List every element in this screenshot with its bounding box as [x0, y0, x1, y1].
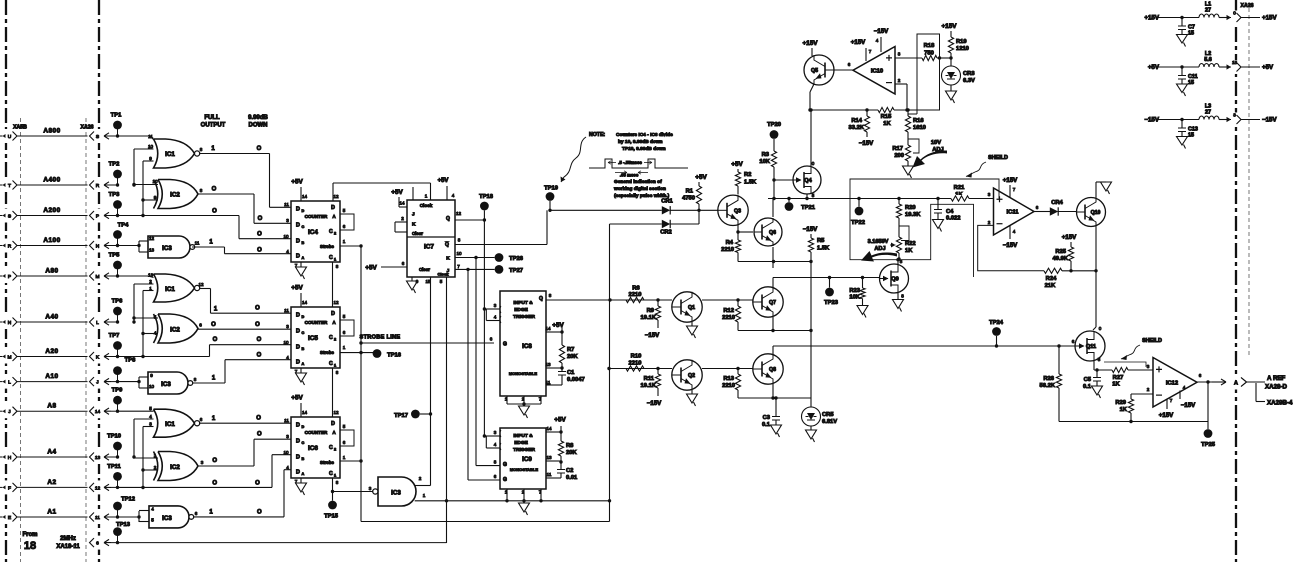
flip-flop IC7 [407, 200, 455, 277]
Q2 ground [691, 390, 693, 394]
svg-text:27: 27 [1205, 8, 1211, 14]
svg-text:+5V: +5V [291, 395, 303, 402]
svg-text:6: 6 [494, 474, 497, 479]
inductor L1 [1199, 14, 1219, 18]
svg-text:10: 10 [152, 179, 158, 184]
connector XA26 dashed line (left) [98, 0, 100, 562]
connector XA26 dashed line (right) [1235, 0, 1237, 562]
capacitor C4 0.022 [936, 197, 939, 200]
svg-text:ADJ: ADJ [874, 246, 885, 252]
svg-text:−15V: −15V [803, 226, 818, 233]
wire IC8 output vertical (CR2 feed) [609, 224, 611, 522]
svg-text:13: 13 [149, 248, 155, 253]
wire IC8 Q to CR2 [610, 223, 662, 225]
svg-text:2: 2 [419, 476, 422, 481]
svg-text:C5: C5 [1084, 377, 1092, 383]
svg-text:D: D [296, 360, 300, 366]
svg-text:A80: A80 [45, 268, 58, 275]
IC5 +5V pin 14 [300, 293, 302, 307]
svg-text:Q6: Q6 [769, 230, 776, 236]
svg-text:3: 3 [149, 422, 152, 427]
svg-text:6: 6 [1036, 205, 1039, 210]
resistor R26 56.2K [1058, 346, 1060, 374]
test point TP4 [117, 235, 119, 246]
svg-text:Strobe: Strobe [320, 460, 334, 465]
wire IC2 out to IC4 DC [198, 193, 254, 195]
capacitor C5 0.1 [1096, 370, 1098, 377]
svg-text:O: O [257, 146, 262, 152]
svg-text:O: O [256, 416, 261, 422]
resistor R14 33.2K [866, 110, 868, 116]
svg-text:−15V: −15V [1003, 242, 1018, 249]
svg-text:TP1: TP1 [111, 113, 122, 119]
svg-text:5: 5 [149, 406, 152, 411]
svg-text:D: D [331, 311, 335, 317]
svg-text:T: T [8, 183, 11, 189]
svg-text:2210: 2210 [722, 315, 735, 321]
svg-text:8: 8 [549, 293, 552, 298]
wire A20 to IC5 DB [118, 356, 210, 358]
svg-text:3: 3 [286, 218, 289, 223]
svg-text:12: 12 [95, 485, 101, 491]
svg-text:2210: 2210 [629, 292, 642, 298]
svg-text:IC3: IC3 [162, 515, 172, 522]
wire A400 to test point [104, 182, 111, 188]
transistor Q2 [672, 360, 702, 390]
svg-text:11: 11 [284, 418, 289, 423]
IC11 -15V pin 4 [1009, 225, 1011, 239]
svg-text:200: 200 [894, 153, 904, 159]
svg-text:TP11: TP11 [107, 464, 121, 470]
svg-text:19.1K: 19.1K [641, 383, 657, 389]
svg-text:TP27: TP27 [509, 268, 523, 274]
R18 routing box [908, 34, 940, 114]
potentiometer R22 1K (3.1659V ADJ) [896, 237, 901, 253]
svg-text:2210: 2210 [629, 361, 642, 367]
wire A80 to test point [104, 273, 111, 279]
capacitor C13 [1181, 120, 1183, 128]
wire IC7 K10 to TP26 [455, 257, 495, 259]
svg-text:O: O [257, 337, 262, 343]
svg-text:Q10: Q10 [1091, 210, 1101, 216]
wire gate pin1 from junction [415, 500, 447, 502]
svg-text:B: B [302, 457, 305, 461]
svg-text:2MHz: 2MHz [60, 536, 76, 542]
note waveform [589, 159, 688, 168]
svg-text:10: 10 [456, 251, 462, 256]
counter IC6 [291, 417, 340, 478]
test point TP2 [117, 174, 119, 185]
svg-text:1K: 1K [905, 248, 913, 254]
svg-text:R4: R4 [726, 240, 734, 246]
test point TP8 [117, 371, 119, 382]
svg-text:R13: R13 [723, 376, 734, 382]
svg-text:J: J [412, 212, 415, 218]
IC9 input bracket wires [484, 435, 500, 437]
svg-text:O: O [257, 353, 262, 359]
svg-text:6: 6 [848, 62, 851, 67]
svg-text:14: 14 [302, 300, 308, 305]
gate IC3 (NAND, group 3) [118, 516, 140, 518]
svg-text:14: 14 [399, 201, 405, 206]
wire Q11 source to IC12 [1093, 361, 1095, 370]
R27 shield stub [1104, 362, 1146, 367]
svg-text:4: 4 [286, 249, 289, 254]
svg-text:O: O [212, 481, 217, 487]
svg-text:0: 0 [1233, 11, 1236, 16]
svg-text:IC1: IC1 [165, 286, 175, 293]
wire strobe bus vertical [360, 246, 362, 522]
svg-text:11: 11 [546, 380, 551, 385]
svg-text:Clear: Clear [412, 231, 423, 236]
IC9 pin11 wire [546, 477, 561, 479]
svg-text:0.022: 0.022 [946, 216, 961, 222]
svg-text:R: R [96, 183, 100, 189]
svg-text:D: D [296, 439, 300, 445]
svg-text:TP13: TP13 [116, 522, 131, 528]
svg-text:C: C [302, 225, 305, 229]
bottom horizontal line y=521 [361, 521, 610, 523]
svg-text:1K: 1K [883, 121, 891, 127]
IC9 pin14 +5V and R8 20K [546, 431, 561, 433]
svg-text:1.5K: 1.5K [744, 180, 757, 186]
gate IC3 (NAND, group 1) [118, 245, 140, 247]
monostable IC9 [500, 428, 546, 489]
svg-text:20K: 20K [566, 450, 577, 456]
svg-text:M: M [96, 274, 100, 280]
svg-text:O: O [255, 481, 260, 487]
wire A100 to test point [104, 242, 111, 248]
svg-text:2: 2 [898, 78, 901, 83]
svg-text:9: 9 [149, 156, 152, 161]
svg-text:7: 7 [1013, 187, 1016, 192]
svg-text:5: 5 [151, 518, 154, 523]
IC6 +5V pin 14 [300, 403, 302, 417]
svg-text:O: O [255, 322, 260, 328]
svg-text:TP2: TP2 [109, 162, 120, 168]
svg-text:+5V: +5V [291, 285, 303, 292]
svg-text:6: 6 [343, 440, 346, 445]
wire IC7 Q12 output to trigger bus [455, 219, 484, 221]
svg-text:4750: 4750 [682, 196, 695, 202]
svg-text:TRIGGER: TRIGGER [513, 447, 535, 453]
capacitor C11 [1181, 67, 1183, 75]
svg-text:5: 5 [1098, 357, 1101, 362]
svg-text:Q: Q [539, 296, 543, 302]
svg-text:From: From [23, 532, 38, 538]
svg-text:−15V: −15V [1181, 402, 1196, 409]
svg-text:9: 9 [154, 195, 157, 200]
wire IC12 output [1197, 381, 1218, 383]
svg-text:12: 12 [149, 236, 155, 241]
svg-text:F: F [8, 485, 11, 491]
svg-text:D: D [302, 315, 305, 319]
svg-text:CR2: CR2 [660, 230, 672, 236]
test point TP6 [117, 311, 119, 322]
IC8 pin11 wire [546, 384, 562, 386]
svg-text:D: D [296, 223, 300, 229]
IC12 +15V pin 7 [1166, 399, 1168, 410]
test point TP5 [117, 265, 119, 276]
test point TP27 [495, 265, 504, 274]
svg-text:12: 12 [198, 282, 204, 287]
svg-text:3: 3 [1233, 113, 1236, 118]
svg-text:3: 3 [286, 324, 289, 329]
svg-text:M: M [8, 355, 12, 361]
svg-text:TP25: TP25 [1201, 442, 1216, 448]
resistor R6 2210 [626, 297, 644, 302]
svg-text:4: 4 [286, 465, 289, 470]
svg-text:7: 7 [1170, 398, 1173, 403]
test point TP13 [117, 532, 119, 543]
potentiometer R17 200 (10V ADJ) [905, 145, 910, 161]
svg-text:8: 8 [336, 480, 339, 485]
svg-text:D: D [331, 421, 335, 427]
svg-text:Q1: Q1 [688, 305, 695, 311]
resistor R9 19.1K [657, 300, 659, 306]
svg-text:8: 8 [194, 377, 197, 382]
svg-text:4: 4 [1013, 229, 1016, 234]
test point TP25 [1207, 422, 1209, 430]
svg-text:IC10: IC10 [871, 68, 883, 74]
svg-text:TP24: TP24 [989, 320, 1004, 326]
IC4 ground [300, 262, 302, 267]
svg-text:13: 13 [95, 455, 101, 461]
svg-text:Q5: Q5 [811, 68, 818, 74]
svg-text:XA26: XA26 [81, 125, 94, 131]
counter IC5 [291, 307, 340, 368]
svg-text:R8: R8 [566, 443, 574, 449]
cable shield dashed line right [85, 118, 87, 562]
signal A2 connector row [1, 480, 18, 494]
svg-text:O: O [258, 216, 263, 222]
svg-text:TRIGGER: TRIGGER [513, 314, 535, 320]
svg-text:4: 4 [494, 442, 497, 447]
svg-text:.05 msec: .05 msec [620, 173, 639, 178]
svg-text:TP8: TP8 [125, 358, 136, 364]
IC12 -15V pin 4 [1179, 391, 1181, 400]
svg-text:C2: C2 [566, 468, 573, 474]
note pointer squiggle [561, 137, 586, 182]
test point TP3 [117, 205, 119, 216]
svg-text:R6: R6 [632, 286, 640, 292]
svg-text:0.01: 0.01 [566, 475, 578, 481]
wire group3 IC2 out to IC6 DC [198, 465, 254, 467]
wire A800 to test point [104, 133, 111, 139]
resistor R27 1K [1112, 367, 1128, 372]
svg-text:1: 1 [343, 455, 346, 460]
svg-text:13: 13 [148, 273, 154, 278]
svg-text:D: D [296, 254, 300, 260]
wire group2 IC3 out to IC5 DA [193, 382, 226, 384]
svg-text:10K: 10K [759, 159, 770, 165]
svg-text:A1: A1 [47, 509, 56, 516]
svg-text:A100: A100 [43, 237, 60, 244]
wire IC7 Q8 output to detector line [455, 244, 547, 246]
svg-text:A: A [302, 256, 305, 260]
svg-text:A REF: A REF [1267, 375, 1286, 382]
svg-text:A20: A20 [45, 348, 58, 355]
gate IC1 (NOR, group 1) [117, 135, 150, 137]
svg-text:9.99dB: 9.99dB [248, 115, 268, 121]
svg-text:CR4: CR4 [1051, 200, 1063, 206]
svg-text:S: S [96, 134, 99, 140]
svg-text:10K: 10K [849, 295, 860, 301]
svg-text:3: 3 [201, 460, 204, 465]
svg-text:TP26: TP26 [509, 256, 524, 262]
resistor R3 10K [771, 151, 776, 167]
svg-text:MONOSTABLE: MONOSTABLE [509, 371, 537, 376]
svg-text:A10: A10 [45, 373, 58, 380]
svg-text:C: C [329, 445, 333, 451]
svg-text:2: 2 [988, 220, 991, 225]
svg-text:2: 2 [334, 232, 336, 236]
svg-text:+5V: +5V [731, 161, 743, 168]
connector XA5B dashed line [5, 0, 7, 562]
signal A200 connector row [1, 209, 18, 223]
svg-text:A40: A40 [45, 314, 58, 321]
svg-text:13: 13 [545, 362, 551, 367]
svg-text:2: 2 [149, 279, 152, 284]
svg-text:D: D [296, 345, 300, 351]
svg-text:B: B [302, 347, 305, 351]
svg-text:11: 11 [284, 308, 289, 313]
svg-text:Clock: Clock [438, 272, 450, 277]
svg-text:5: 5 [343, 208, 346, 213]
svg-text:14: 14 [545, 326, 551, 331]
svg-text:C1: C1 [567, 370, 575, 376]
svg-text:TP23: TP23 [824, 300, 839, 306]
svg-text:Counters IC4 - IC6 divide: Counters IC4 - IC6 divide [616, 132, 673, 138]
wire A4 feeder vertical [133, 419, 135, 457]
svg-text:O: O [212, 458, 217, 464]
test point TP12 [117, 506, 119, 517]
svg-text:IC2: IC2 [170, 192, 180, 199]
svg-text:N: N [8, 320, 12, 326]
IC7 bottom pin verticals [430, 277, 432, 486]
svg-text:6: 6 [1199, 373, 1202, 378]
resistor R4 2210 [737, 232, 739, 240]
svg-text:19.3K: 19.3K [905, 212, 921, 218]
svg-text:2: 2 [401, 216, 404, 221]
bottom feedback bus [1059, 421, 1208, 423]
svg-text:R7: R7 [567, 347, 574, 353]
wire IC7 J7 to TP27 [455, 268, 495, 270]
resistor R20 19.3K [897, 197, 900, 200]
svg-text:DOWN: DOWN [249, 123, 268, 129]
wire 2MHz to digital section [104, 539, 111, 545]
svg-text:+15V: +15V [802, 40, 818, 47]
svg-text:O: O [255, 306, 260, 312]
test point TP11 [117, 476, 119, 487]
svg-text:D: D [296, 313, 300, 319]
Q10 collector to ground [1095, 182, 1097, 198]
svg-text:0.1: 0.1 [762, 422, 771, 428]
test point TP1 [117, 125, 119, 136]
resistor R12 2210 [737, 300, 739, 306]
svg-text:OUTPUT: OUTPUT [201, 123, 226, 129]
wire A200 to test point [104, 212, 111, 218]
IC8 pin14 +5V and R7 [546, 331, 562, 333]
svg-text:K: K [446, 256, 450, 262]
svg-text:STROBE LINE: STROBE LINE [360, 335, 401, 341]
svg-text:11: 11 [284, 202, 289, 207]
svg-text:IC1: IC1 [165, 421, 175, 428]
bottom junction bus [447, 500, 610, 502]
svg-text:C: C [329, 255, 333, 261]
svg-text:C: C [302, 441, 305, 445]
wire gate pin2 up to TP17 column [415, 485, 431, 487]
wire A2 feeder vertical [142, 427, 144, 488]
svg-text:5: 5 [154, 315, 157, 320]
signal A10 connector row [1, 375, 18, 389]
test point TP17 [411, 410, 420, 419]
svg-text:14: 14 [95, 409, 101, 415]
svg-text:working digital section: working digital section [613, 186, 666, 192]
counter IC4 [291, 201, 340, 262]
svg-text:4: 4 [149, 414, 152, 419]
svg-text:33.2K: 33.2K [849, 125, 865, 131]
svg-text:−15V: −15V [874, 28, 889, 35]
svg-text:N: N [96, 244, 100, 250]
svg-text:O: O [212, 209, 217, 215]
signal A8 connector row [1, 404, 18, 418]
wire A2 to test point [104, 484, 111, 490]
svg-text:+5V: +5V [291, 179, 303, 186]
svg-text:7: 7 [457, 264, 460, 269]
transistor Q3 [718, 195, 748, 225]
wire IC9 out line B [609, 368, 672, 370]
transistor Q1 [672, 292, 702, 322]
Q10 emitter down [1095, 227, 1097, 271]
svg-text:G: G [503, 462, 507, 468]
svg-text:Q8: Q8 [769, 367, 776, 373]
signal A4 connector row [1, 450, 18, 464]
svg-text:O: O [212, 187, 217, 193]
svg-text:4: 4 [151, 507, 154, 512]
svg-text:R19: R19 [956, 39, 967, 45]
svg-text:6: 6 [199, 323, 202, 328]
IC6 A-C2 feedback loop [340, 430, 354, 446]
transistor Q11 (FET) [1057, 344, 1060, 347]
svg-text:+5V: +5V [365, 265, 377, 272]
svg-text:3: 3 [369, 486, 372, 491]
signal A400 connector row [1, 178, 18, 192]
svg-text:4: 4 [154, 331, 157, 336]
svg-text:+5V: +5V [1262, 64, 1274, 71]
svg-text:Q9: Q9 [891, 277, 898, 283]
svg-text:12: 12 [456, 211, 462, 216]
NAND gate IC3 (strobe inhibit) [378, 477, 416, 506]
inductor L2 [1199, 64, 1219, 67]
svg-text:C: C [329, 361, 333, 367]
svg-text:COUNTER: COUNTER [305, 320, 328, 325]
svg-text:Q11: Q11 [1086, 344, 1096, 350]
svg-text:INPUT &: INPUT & [513, 433, 533, 439]
signal A40 connector row [1, 315, 18, 329]
capacitor C7 [1181, 18, 1183, 26]
signal 2MHz connector row (From 18, XA18-11) [92, 536, 103, 550]
svg-text:TP19: TP19 [544, 186, 559, 192]
test point TP9 [117, 400, 119, 411]
test point TP21 [788, 199, 790, 203]
svg-text:R3: R3 [762, 152, 770, 158]
Q9 drain to guard [897, 260, 899, 264]
svg-text:S: S [8, 214, 11, 220]
wire Q10 emitter to Q11 drain [1095, 271, 1097, 327]
IC9 pin13 wire [546, 460, 561, 462]
svg-text:R21: R21 [954, 185, 965, 191]
